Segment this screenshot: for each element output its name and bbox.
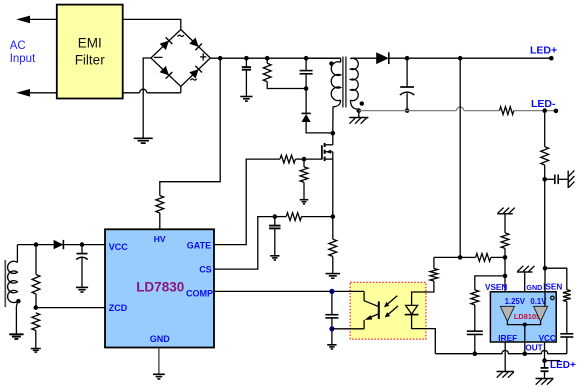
diode snubber clamp [305,89,307,114]
node secondary return [357,108,362,113]
bridge diode lower-left [160,66,169,75]
aux winding phase dot [16,299,20,303]
ground CS filter [270,255,279,257]
resistor CS [286,213,301,221]
wire IREF pin to chassis ground [504,342,506,372]
node COMP [329,289,334,294]
ground gate pulldown [300,199,309,201]
node LED- filter mid [542,177,547,182]
wire COMP pin to optocoupler [214,290,364,292]
ground below bridge [134,137,153,139]
svg-text:CS: CS [199,265,212,275]
svg-text:LED+: LED+ [550,360,576,371]
node LED+ line bottom [458,255,463,260]
diode output rectifier [376,52,389,64]
resistor HV startup [156,196,164,214]
capacitor CS filter [274,217,276,226]
wire bottom LED+ rail (hops at IREF and VCC pins) [436,350,567,353]
resistor ISEN RC [563,290,571,302]
wire OUT pin [524,325,526,354]
capacitor VCC [81,245,83,254]
chassis ground secondary [358,111,360,118]
resistor ZCD upper [35,245,37,275]
svg-text:Input: Input [10,53,36,65]
wire secondary to output diode [351,57,377,59]
bridge AC tilde top [178,35,184,37]
wire main DC rail [210,57,340,59]
resistor LED- damping [500,107,514,115]
AC input arrow top [28,18,57,20]
opto light arrow 1 [387,296,398,305]
ground current sense [326,273,341,275]
svg-text:LED-: LED- [531,98,556,110]
transformer core [342,57,344,108]
LED- terminal [554,109,559,114]
wire GND pin [158,348,160,375]
capacitor COMP [331,291,333,314]
aux core line [4,260,6,307]
IC U2 LD8105 [490,292,556,342]
node VSEN RC to rail [473,351,478,356]
wire ISEN pin [544,268,546,306]
transistor Q1 power MOSFET [321,145,323,159]
node OUT on rail [523,351,528,356]
ground ZCD divider [31,348,41,350]
chassis ground IREF [497,371,514,373]
IC U1 LD7830 controller [105,229,214,347]
wire HV feed from rail [160,58,220,195]
resistor LED- filter [544,111,546,147]
node output cap top [405,56,410,61]
node ZCD divider top [34,242,39,247]
node CS filter [273,214,278,219]
wire LED- rail (hop over LED+ branch) [359,110,457,112]
wire VSEN node [504,257,506,306]
wire VCC rail [17,244,53,246]
wire GATE pin to gate network [214,159,280,245]
bridge AC tilde bottom [190,79,196,81]
chassis ground VCC8105 [536,378,554,380]
LED+ terminal [549,56,554,61]
node ZCD [34,305,39,310]
node ISEN [543,266,548,271]
wire LED- filter to ISEN node [544,179,546,268]
AC input arrow bottom [28,92,57,94]
node drain [331,131,336,136]
node LED- divider tap [542,108,547,113]
svg-text:AC: AC [10,40,26,52]
svg-text:EMI: EMI [78,36,102,51]
wire bridge negative to ground [143,58,151,138]
wire VCC8105 pin to LED+ terminal [544,342,546,368]
capacitor output electrolytic [406,58,408,87]
resistor gate drive [280,155,295,163]
node VSEN branch [503,274,508,279]
node LED+ bottom terminal [542,358,547,363]
svg-text:OUT: OUT [525,344,542,353]
wire LED+ sense drop [459,58,461,257]
opto light arrow 2 [387,306,398,315]
svg-text:LD7830: LD7830 [136,280,184,295]
bridge rectifier diamond [151,30,210,87]
svg-text:1.25V: 1.25V [505,297,526,306]
resistor current sense [332,217,334,240]
svg-text:VCC: VCC [109,242,129,252]
svg-text:Filter: Filter [75,53,106,68]
capacitor snubber [305,58,307,70]
resistor opto LED series [433,257,435,268]
capacitor VCC8105 bypass [541,367,549,369]
pin indicator circle [551,296,555,300]
svg-text:ISEN: ISEN [543,282,562,291]
node COMP cap bottom [329,326,334,331]
ground COMP [327,344,336,346]
wire VSEN divider top [434,256,460,258]
svg-text:GND: GND [150,334,171,344]
wire source to CS node [332,159,334,217]
svg-text:GND: GND [526,283,542,292]
node snubber C [304,56,309,61]
svg-text:VSEN: VSEN [485,283,507,292]
wire HV resistor to pin [159,213,161,229]
resistor VSEN pullup to chassis [504,248,506,257]
resistor snubber [266,58,268,63]
bridge diode upper-right [189,38,198,47]
chassis ground right [567,171,569,188]
svg-text:GATE: GATE [187,240,211,250]
wire opto emitter return [332,328,364,330]
transformer T1 secondary winding [350,57,352,60]
optocoupler U3 box [350,282,426,339]
chassis ground GND8105 [524,272,526,292]
wire ZCD to pin [36,307,105,309]
svg-text:ZCD: ZCD [109,303,128,313]
resistor VSEN upper [476,254,491,262]
bridge diode upper-left [160,41,169,50]
node bulk cap [244,56,249,61]
capacitor bulk input [245,58,247,67]
svg-text:HV: HV [154,234,166,244]
ground LD7830 GND [153,373,165,375]
node source / CS [331,214,336,219]
svg-text:COMP: COMP [186,289,213,299]
transformer T1 primary winding [306,57,341,59]
node VCC cap [80,242,85,247]
node LED+ sense branch [458,56,463,61]
bridge minus label [154,56,162,58]
chassis ground VSEN pullup [497,213,513,215]
ground aux winding [9,333,23,335]
resistor gate pulldown [303,159,305,167]
EMI filter block [57,5,123,99]
capacitor ISEN RC [560,333,573,335]
capacitor to chassis [545,178,555,180]
ground VCC cap [76,286,88,288]
wire EMI bottom output to bridge (hop over ground line) [123,92,140,94]
resistor ZCD lower [32,313,40,331]
opto phototransistor [364,291,378,306]
svg-text:VCC: VCC [539,334,556,343]
ground bulk cap [240,96,252,98]
wire LED+ rail [388,57,551,59]
bridge plus label [200,56,206,58]
resistor VSEN RC [471,290,479,305]
node gate [302,157,307,162]
opto LED [412,281,434,305]
capacitor VSEN RC [467,330,483,332]
node OUT internal [523,323,527,327]
node output cap bottom [405,108,410,113]
transformer secondary phase dot [360,101,364,105]
node bridge output [218,56,223,61]
node snubber R [265,56,270,61]
svg-text:IREF: IREF [498,333,517,343]
diode VCC rectifier [54,240,64,249]
svg-text:LED+: LED+ [530,45,557,57]
wire CS pin to filter [214,217,275,270]
wire gate node to MOSFET [304,158,322,160]
wire VSEN RC branch [475,276,505,290]
transformer primary phase dot [329,61,333,65]
node VSEN top [503,255,508,260]
wire comparator outputs to OUT [507,321,540,324]
node snubber bottom [304,86,309,91]
bridge diode lower-right [189,69,198,78]
transformer aux winding [16,245,18,263]
wire EMI top output to bridge [123,19,181,29]
wire ISEN RC [545,268,567,290]
